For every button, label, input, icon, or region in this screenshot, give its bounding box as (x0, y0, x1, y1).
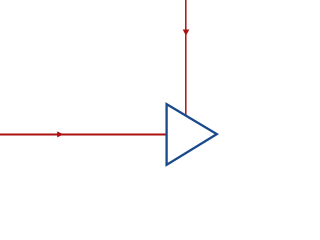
arrowhead (right) on horizontal wire (57, 131, 63, 137)
wire: horizontal input feed (0, 133, 167, 135)
wire: vertical input feed (185, 0, 187, 117)
amplifier U1 (triangle symbol) (167, 104, 217, 165)
arrowhead (down) on vertical wire (183, 30, 190, 36)
